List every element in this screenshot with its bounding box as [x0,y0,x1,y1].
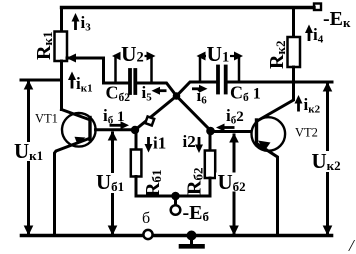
caption slash [348,236,356,254]
stem i2 [198,137,201,147]
U1 left drop line [199,56,202,80]
label i2 [183,132,196,151]
wire: -Eб stub [174,196,177,205]
U2 bracket right stub [142,55,148,57]
stem i3 [74,20,77,30]
label i5 [142,83,153,104]
ground symbol stem [190,237,193,244]
stem iб2 [223,126,235,129]
stem i1 [147,137,150,146]
wire: Rк2 bottom to VT2 collector [257,67,294,121]
U2 bracket left stub [119,55,125,57]
label Rб1 [142,170,164,197]
wire: top rail (-Eк supply bus) [62,6,315,9]
terminal б (open circle on rail) [143,230,152,239]
arrowhead: iб2 left [216,124,225,132]
junction node: -Eб [171,192,180,201]
U1 right drop line [238,56,241,80]
wire: bottom rail (common) [22,234,332,238]
junction node: VT1 base [131,126,139,134]
resistor Rб2 (body) [205,151,215,179]
wire: X crossing to VT1 base node (through hop square) [135,96,177,130]
resistor Rк2 (body) [288,37,301,67]
label U1 [206,42,230,66]
label Uк1 [13,139,45,163]
arrowhead: i3 up [72,13,80,22]
svg-text:VT2: VT2 [295,126,318,140]
wire: VT2 base node down to Rб2 [209,132,212,151]
label б (terminal) [142,210,150,227]
stem iк2 [297,102,300,112]
arrowhead: i6 right [199,85,208,93]
label VT1 [35,112,58,126]
U2 right drop line [150,56,153,83]
measurement arrow Uб1 [111,133,114,234]
label i1 [153,134,166,153]
label iк2 [304,95,321,116]
current arrow stems [72,20,309,147]
arrowhead: i5 left [152,87,161,95]
transistor VT1 collector lead [62,110,90,120]
arrowhead: U2 left [112,52,121,61]
wire: Rк2 top lead [292,8,295,38]
wire: Cб1 right plate to VT2 collector node and Uк2 arrow [228,81,333,84]
label -Eк [323,8,351,30]
capacitor Cб1 left plate [216,67,220,93]
wire: collector node to Cб2 (with corner) [67,58,129,83]
transistor VT1 base bar [88,118,91,140]
label -Eб [183,202,210,224]
resistor Rк1 (body) [55,32,68,62]
measurement arrow Uк1 [27,82,30,234]
transistor VT2 circle [251,117,285,151]
arrowhead: U1 right [234,52,243,61]
resistor Rб1 (body) [131,150,142,177]
arrowhead: Uк2 bottom [323,226,333,236]
label U2 [121,42,145,66]
stem iк1 [71,79,74,89]
junction node: X crossing [173,92,181,100]
terminal -Eб (open circle) [171,205,181,215]
svg-text:i2: i2 [183,132,196,151]
junction node: VT2 base [206,127,215,136]
hop square on Cб1-VT1 coupling wire [145,117,154,126]
U2 left drop line [114,56,117,82]
arrowhead: i4 up [305,25,313,34]
stem i6 [192,87,201,90]
wire: Cб2 right plate to X crossing [137,83,177,96]
arrowhead: VT2 emitter (PNP, toward base) [258,141,271,152]
arrowhead: i2 down [195,145,203,154]
arrowhead: Uк1 top [24,80,34,90]
measurement arrow Uк2 [326,84,329,234]
label i3 [81,13,92,34]
transistor VT2 base bar [255,120,258,145]
ground symbol bar [181,244,203,249]
svg-text:i1: i1 [153,134,166,153]
arrowhead: current into Rк1 node [67,54,77,63]
arrowhead: iб1 right [121,121,130,129]
transistor VT2 emitter lead [258,144,278,236]
arrowhead: iк1 up [68,72,76,81]
label iк1 [76,74,93,95]
terminal -Eк (open square) [314,4,321,11]
label Cб1 [230,83,261,105]
label i4 [313,25,324,46]
arrowhead: Uб1 top [108,131,118,141]
wire: Rк1 bottom to VT1 collector [60,61,63,110]
measurement arrow Uб2 [233,135,236,234]
transistor VT2 base lead [211,130,251,133]
arrowhead: U1 left [197,52,206,61]
stem i4 [308,32,311,42]
stem iб1 [110,124,123,127]
transistor VT1 circle [62,113,96,147]
label Uб2 [216,170,246,194]
capacitor Cб1 right plate [224,67,228,93]
label Uб1 [95,170,127,194]
svg-text:б: б [142,210,150,227]
label Rк1 [33,32,55,60]
arrowhead: iк2 up [295,95,303,104]
wire: VT1 base node down to Rб1 [135,130,138,150]
arrowhead: Uб2 bottom [229,226,239,236]
wire: Rк1 top lead [60,8,63,32]
label iб1 [103,106,124,127]
arrowhead: VT1 emitter (PNP, toward base) [75,137,86,145]
transistor VT1 emitter lead [55,139,90,236]
U1 bracket left stub [203,55,209,57]
wire: Uк1 reference stub [21,79,62,82]
wire: Cб1 left plate to X crossing [177,82,217,96]
label iб2 [226,106,244,127]
transistor VT1 base lead [96,128,136,131]
label Uк2 [308,149,344,173]
capacitor Cб2 left plate [128,70,132,93]
capacitor Cб2 right plate [133,70,137,93]
U1 bracket right stub [231,55,237,57]
stem i5 [158,89,167,92]
label Rб2 [184,168,206,195]
svg-text:iб 1: iб 1 [103,106,124,127]
junction node: ground on rail [187,231,197,241]
arrowhead: Uк1 bottom [24,226,34,236]
arrowhead: U2 right [147,52,156,61]
wire: Rб1-Rб2 bottom connection [136,195,210,198]
arrowhead: i1 down [145,144,153,153]
wire: Rб1 bottom [135,177,138,197]
label VT2 [295,126,318,140]
wire: X crossing to VT2 base node [177,96,211,131]
arrowhead: Uб1 bottom [108,226,118,236]
arrowhead: Uк2 top [323,82,333,92]
arrowhead: Uб2 top [229,133,239,143]
label Cб2 [106,83,131,105]
svg-text:VT1: VT1 [35,112,58,126]
wire: Rб2 bottom [209,178,212,196]
label Rк2 [266,41,288,69]
label i6 [197,86,208,107]
